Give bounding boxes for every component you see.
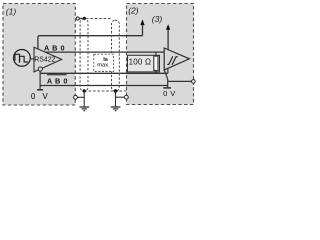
resistor R1 lead bottom [155, 71, 157, 74]
shield drain dashed top run [86, 18, 112, 20]
junction dot shield bottom right [114, 89, 117, 92]
junction dot shield top [83, 17, 86, 20]
wire W2 A B 0 pair wire [45, 51, 164, 53]
svg-text:0 V: 0 V [31, 92, 50, 101]
right enclosure box (2) receiver side [127, 4, 194, 105]
junction dot shield bottom left [83, 89, 86, 92]
wire U2 bottom vertex to 0V node [164, 70, 167, 87]
wire W1 turn up into arrow [142, 25, 144, 36]
wire W1 A B 0 direct signal [40, 35, 143, 37]
wire encoder to driver [30, 58, 34, 60]
svg-text:0 V: 0 V [163, 89, 176, 98]
cable shield sleeve right [112, 20, 120, 91]
arrow head (3) [166, 24, 170, 30]
svg-text:(2): (2) [128, 6, 139, 16]
ground tick right 0V [163, 87, 171, 89]
wire W3 riser to receiver triangle bottom edge [167, 68, 169, 73]
op-amp U2 receiver schmitt trigger triangle [164, 48, 189, 70]
svg-text:A B 0: A B 0 [47, 76, 68, 85]
svg-text:(1): (1) [6, 6, 17, 16]
resistor R1 body [154, 56, 158, 70]
wire 0V rail to terminal [168, 80, 192, 82]
op-amp U1 RS422 line driver triangle [34, 47, 62, 72]
earth ground right [111, 107, 121, 111]
svg-text:RS422: RS422 [34, 57, 55, 64]
drain stem left [83, 91, 85, 106]
svg-text:(3): (3) [152, 14, 163, 24]
wire link circle to stem left [77, 96, 84, 98]
terminal circle bottom left box [74, 95, 78, 99]
encoder waveform pulse B [19, 56, 28, 62]
cable length label box ls max [94, 54, 114, 71]
arrow from U2 top to counter (3) [167, 29, 169, 50]
shield drain dashed bottom run [84, 90, 126, 92]
earth ground left [80, 107, 90, 111]
svg-text:100 Ω: 100 Ω [129, 58, 152, 67]
wire W4 0V wire [40, 85, 168, 87]
U2 hysteresis symbol [167, 56, 173, 64]
node label inverted A B 0 overline [47, 74, 67, 76]
resistor R1 lead top [155, 52, 157, 56]
drain stem right [115, 91, 117, 106]
left enclosure box (1) encoder side [3, 4, 75, 106]
terminal circle 0V right edge [192, 80, 196, 84]
terminal circle bottom right box [124, 95, 128, 99]
wire shield top link [79, 18, 83, 20]
terminal circle shield top on left box [76, 17, 79, 20]
U1 inverting output bubble [38, 67, 42, 71]
svg-text:A B 0: A B 0 [44, 43, 65, 52]
resistor R1 100 ohm label box [128, 55, 160, 72]
wire link circle to stem right [116, 96, 125, 98]
wire from bubble down to 0V tick [39, 71, 41, 89]
encoder waveform pulse A [14, 54, 20, 60]
wire W1 riser from driver top edge [38, 36, 40, 49]
ground tick left 0V [37, 89, 43, 91]
arrow head signal A B 0 to counter [140, 19, 144, 25]
svg-text:max.: max. [97, 63, 110, 69]
wire W3 inverted pair wire [40, 72, 168, 74]
cable shield sleeve left [80, 19, 88, 91]
encoder M1 circle [14, 50, 31, 67]
